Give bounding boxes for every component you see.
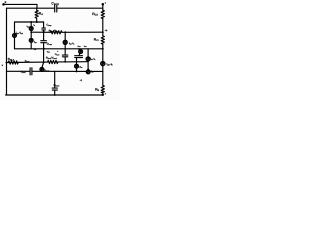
node junction x43.6 y32.2 [43,31,45,33]
node junction x31.2 y22 [30,21,32,23]
wire left rail [6,8,8,95]
wire line y71.3 mid [32,70,103,72]
node junction x31.2 y32.2 [30,31,32,33]
node junction left rail y62.5 [6,62,8,64]
svg-text:Rd: Rd [39,11,43,16]
capacitor D_bep branch x43.6 lower [43,32,45,40]
capacitor wide plates [75,55,83,57]
wire rail y48.8 [15,48,103,50]
capacitor C_bco branch x54.7 [54,71,56,88]
resistor R_bep horizontal [50,31,62,34]
wide capacitor block top: corner and source [78,48,80,51]
capacitor C_BCO [54,5,56,12]
node junction right rail y32.2 [102,31,104,33]
wire outer top rail [4,4,38,8]
wire right rail bottom [102,93,104,95]
diode D2 branch x31.2 lower [29,38,33,42]
resistor R_bnd [48,60,58,63]
wire rail y32.2 right [62,31,103,33]
resistor R_BLK [8,61,18,64]
resistor R_CI [101,36,104,44]
resistor R_d [35,8,38,22]
wire right rail seg2 [102,19,104,36]
svg-text:Ibc-Ib: Ibc-Ib [90,57,95,60]
wire line y71.3 left [7,70,31,72]
svg-text:B: B [5,1,7,4]
current source branch x88 [87,49,89,57]
wire inner top rail right [57,7,103,9]
svg-text:Rbep/Vbep: Rbep/Vbep [49,29,60,33]
svg-text:Ibc: Ibc [91,70,94,73]
wire right rail seg3 [102,44,104,61]
node junction x88.2 [87,69,89,71]
wire bottom rail [6,94,103,96]
svg-text:RE: RE [95,87,99,92]
node junction D_bnd top [43,61,45,63]
node B terminal [2,3,5,6]
svg-text:Dbep: Dbep [47,42,53,46]
capacitor C_bct x65.2 [62,54,67,56]
current source I_ph inline right rail [101,61,105,65]
wire right rail seg4 [102,66,104,86]
current source I_bc2 at rail [86,70,90,74]
wire rail y32.2 [31,31,50,33]
capacitor C_bcd series [29,68,31,75]
node junction x43.6 y48.8 [43,48,45,50]
capacitor C_bep branch x43.6 [43,22,45,28]
wire rail B' y22 [15,21,44,23]
svg-text:Cbct: Cbct [55,53,60,56]
current source I_bp branch x65.2 [64,31,66,33]
node junction x76.5 y71.3 [76,70,78,72]
wire inner top rail left [7,7,55,9]
node junction Rd-rail [36,21,38,23]
svg-text:Rbnd/Vbnd: Rbnd/Vbnd [46,57,57,61]
svg-text:Ibp-Ib: Ibp-Ib [69,42,75,45]
current source I_bc branch x76.5 [76,58,78,65]
node junction right rail y48.8 [102,48,104,50]
resistor R_CX [101,10,104,18]
node e terminal [102,94,104,96]
node junction C_bco bottom [54,94,56,96]
node C terminal [102,3,105,6]
svg-text:Cbcd: Cbcd [21,71,26,74]
wire line y61.8 right [58,61,88,63]
svg-text:RCX: RCX [92,12,98,17]
svg-text:CBCO: CBCO [51,1,59,6]
wire branch x43.6 below rail [43,49,45,63]
wire mid line y62 [7,61,48,63]
current source I_ap-I_bp [14,22,16,33]
diode D1 branch x31.2 [30,22,32,27]
resistor R_E [101,85,104,92]
diode D_bnd [42,62,44,67]
wire right rail top [102,4,104,10]
node junction x65.2 y62 [64,61,66,63]
